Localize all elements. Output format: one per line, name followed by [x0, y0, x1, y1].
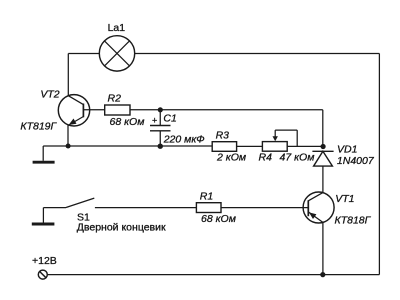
svg-text:R4: R4 — [259, 151, 273, 163]
svg-text:C1: C1 — [163, 113, 176, 125]
svg-text:68 кОм: 68 кОм — [201, 213, 236, 225]
svg-text:R3: R3 — [216, 129, 230, 141]
svg-text:+12В: +12В — [32, 255, 57, 267]
svg-text:VT1: VT1 — [335, 193, 354, 205]
svg-text:КТ819Г: КТ819Г — [20, 121, 57, 133]
svg-text:R1: R1 — [200, 191, 213, 203]
svg-text:La1: La1 — [108, 22, 126, 34]
svg-text:220 мкФ: 220 мкФ — [163, 133, 205, 145]
svg-text:+: + — [152, 116, 157, 126]
svg-text:VD1: VD1 — [337, 144, 357, 156]
svg-text:2 кОм: 2 кОм — [216, 152, 246, 164]
svg-text:VT2: VT2 — [40, 89, 59, 101]
svg-text:R2: R2 — [108, 92, 122, 104]
svg-text:Дверной концевик: Дверной концевик — [77, 221, 166, 233]
svg-text:1N4007: 1N4007 — [337, 155, 375, 167]
svg-text:68 кОм: 68 кОм — [110, 116, 145, 128]
svg-text:47 кОм: 47 кОм — [280, 151, 315, 163]
svg-text:КТ818Г: КТ818Г — [335, 215, 372, 227]
